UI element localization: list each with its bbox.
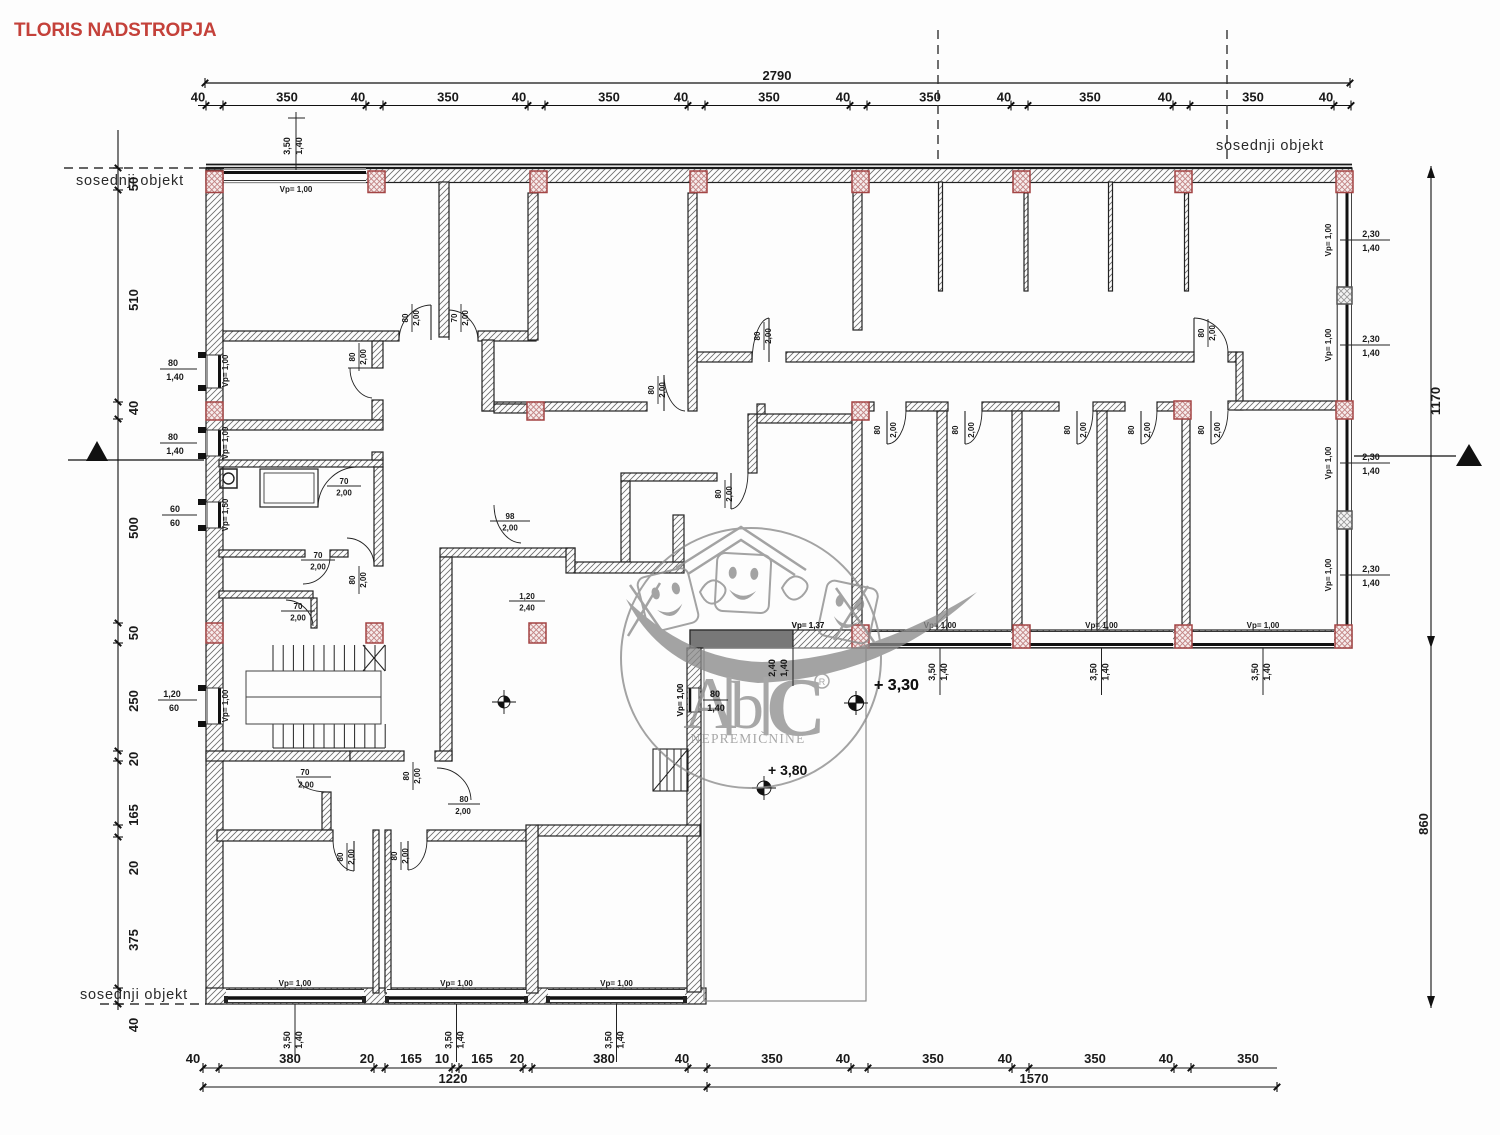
svg-text:1,40: 1,40 bbox=[616, 1031, 626, 1049]
wall VK bbox=[748, 414, 757, 473]
wall R2L bbox=[482, 402, 647, 411]
dashed boundary left (sosednji objekt) bbox=[64, 167, 206, 169]
svg-text:350: 350 bbox=[276, 90, 298, 105]
svg-text:80: 80 bbox=[348, 575, 357, 584]
svg-text:50: 50 bbox=[126, 626, 141, 640]
column bottom x206 bbox=[206, 623, 223, 643]
kitchen left bbox=[621, 481, 630, 562]
svg-text:20: 20 bbox=[126, 861, 141, 875]
svg-text:Vp= 1,00: Vp= 1,00 bbox=[221, 426, 230, 459]
svg-text:380: 380 bbox=[593, 1051, 615, 1066]
svg-text:40: 40 bbox=[512, 90, 526, 105]
svg-text:350: 350 bbox=[1084, 1051, 1106, 1066]
column top x368 bbox=[368, 171, 385, 193]
wall TD5 bbox=[1182, 419, 1190, 630]
stair rail rectangle bbox=[246, 671, 381, 724]
wall R2B bbox=[1228, 401, 1336, 410]
svg-text:40: 40 bbox=[836, 90, 850, 105]
column bottom x1013 bbox=[1013, 625, 1030, 648]
svg-text:250: 250 bbox=[126, 690, 141, 712]
door toilet x1211 bbox=[1210, 411, 1212, 444]
svg-text:70: 70 bbox=[340, 477, 349, 486]
svg-text:80: 80 bbox=[1197, 425, 1206, 434]
svg-text:80: 80 bbox=[401, 313, 410, 322]
svg-text:350: 350 bbox=[1237, 1051, 1259, 1066]
right dimension 860 bbox=[1430, 648, 1432, 1008]
svg-text:1,40: 1,40 bbox=[1362, 466, 1380, 476]
wall A3 bbox=[697, 352, 752, 362]
window bottom wing x226 bbox=[226, 989, 364, 1003]
wall S5 stub bbox=[322, 792, 331, 830]
column mid x1174 bbox=[1174, 401, 1191, 419]
wall WC6 bbox=[311, 598, 317, 628]
svg-text:350: 350 bbox=[1079, 90, 1101, 105]
window bottom wing x387 bbox=[387, 989, 526, 1003]
svg-text:80: 80 bbox=[710, 689, 720, 699]
wall LW1 bbox=[217, 830, 333, 841]
wall T1 bbox=[869, 402, 874, 411]
window right wing bottom x869 bbox=[869, 631, 1011, 647]
watermark logo bbox=[621, 527, 977, 788]
column mid x527 bbox=[527, 402, 544, 420]
svg-text:40: 40 bbox=[1319, 90, 1333, 105]
column top x852 bbox=[852, 171, 869, 193]
wall C2 bbox=[494, 404, 527, 413]
level mark +3,30 bbox=[844, 691, 868, 715]
svg-text:1,40: 1,40 bbox=[294, 1031, 304, 1049]
door D1 80/2,00 bbox=[430, 305, 432, 340]
door D11 kitchen bbox=[730, 473, 732, 509]
wall KB2 bbox=[575, 562, 684, 573]
svg-text:350: 350 bbox=[922, 1051, 944, 1066]
wall V530 bbox=[528, 193, 538, 340]
wall S2b bbox=[435, 751, 452, 761]
svg-text:2,00: 2,00 bbox=[412, 310, 421, 326]
wall C1 bbox=[482, 340, 494, 411]
divider DD1b bbox=[385, 830, 391, 993]
svg-text:98: 98 bbox=[506, 512, 515, 521]
dashed boundary verticals top bbox=[937, 30, 939, 160]
staircase main bbox=[273, 645, 385, 748]
column top x530 bbox=[530, 171, 547, 193]
wall WC2 bbox=[374, 467, 383, 566]
svg-text:40: 40 bbox=[836, 1051, 850, 1066]
wall bottom right wing bbox=[690, 630, 1352, 648]
svg-text:2,30: 2,30 bbox=[1362, 229, 1380, 239]
svg-text:80: 80 bbox=[168, 432, 178, 442]
left wall window w1 bbox=[206, 355, 223, 388]
bottom dimension line row 2 (1220 / 1570) bbox=[203, 1086, 1277, 1088]
svg-text:80: 80 bbox=[753, 331, 762, 340]
wall TD2 bbox=[937, 411, 947, 630]
wall TD4 bbox=[1097, 411, 1107, 630]
svg-text:70: 70 bbox=[294, 602, 303, 611]
wall VJ bbox=[1236, 352, 1243, 410]
dashed boundary bottom-left bbox=[100, 1003, 206, 1005]
svg-text:40: 40 bbox=[186, 1051, 200, 1066]
section marker right bbox=[1354, 455, 1456, 457]
bottom dimension line row 1 bbox=[202, 1067, 1277, 1069]
svg-text:80: 80 bbox=[1063, 425, 1072, 434]
wall LW2 bbox=[427, 830, 526, 841]
svg-text:40: 40 bbox=[126, 1018, 141, 1032]
svg-text:10: 10 bbox=[435, 1051, 449, 1066]
svg-text:Vp= 1,00: Vp= 1,00 bbox=[221, 354, 230, 387]
svg-text:50: 50 bbox=[126, 177, 141, 191]
wall WC5 bbox=[219, 591, 313, 598]
window right wing bottom x1030 bbox=[1030, 631, 1173, 647]
svg-text:2,00: 2,00 bbox=[401, 848, 410, 864]
left wall window w3 bbox=[206, 502, 223, 528]
svg-text:80: 80 bbox=[647, 385, 656, 394]
svg-text:sosednji objekt: sosednji objekt bbox=[80, 987, 188, 1003]
window bottom wing x548 bbox=[548, 989, 685, 1003]
wall A5 bbox=[1228, 352, 1236, 362]
wall bottom left wing bbox=[206, 988, 706, 1004]
window right wall y240 bbox=[1340, 239, 1390, 241]
svg-text:60: 60 bbox=[170, 504, 180, 514]
dark shaded wall segment bbox=[690, 630, 793, 648]
svg-text:40: 40 bbox=[674, 90, 688, 105]
svg-text:1,40: 1,40 bbox=[707, 703, 725, 713]
svg-text:Vp= 1,00: Vp= 1,00 bbox=[676, 683, 685, 716]
svg-text:Vp= 1,00: Vp= 1,00 bbox=[221, 689, 230, 722]
svg-text:+ 3,80: + 3,80 bbox=[768, 762, 808, 778]
svg-text:2,00: 2,00 bbox=[290, 614, 306, 623]
svg-text:1,40: 1,40 bbox=[1262, 663, 1272, 681]
right wall gray columns bbox=[1337, 287, 1352, 304]
svg-text:Vp= 1,00: Vp= 1,00 bbox=[1247, 621, 1280, 630]
svg-text:Vp= 1,00: Vp= 1,00 bbox=[1324, 446, 1333, 479]
left wall window w2 bbox=[206, 430, 223, 456]
fin 3 bbox=[1109, 182, 1113, 291]
svg-text:2,00: 2,00 bbox=[967, 422, 976, 438]
svg-text:80: 80 bbox=[390, 851, 399, 860]
svg-text:TLORIS NADSTROPJA: TLORIS NADSTROPJA bbox=[14, 20, 217, 41]
door WC2 70/2,00 bbox=[303, 557, 330, 584]
door stairwell 80/2,00 bbox=[437, 768, 471, 800]
svg-text:Vp= 1,37: Vp= 1,37 bbox=[792, 621, 825, 630]
svg-text:3,50: 3,50 bbox=[1250, 663, 1260, 681]
svg-text:380: 380 bbox=[279, 1051, 301, 1066]
left wall window w4 bbox=[206, 688, 223, 724]
svg-text:sosednji objekt: sosednji objekt bbox=[1216, 138, 1324, 154]
svg-text:1170: 1170 bbox=[1428, 387, 1443, 415]
wall H11 bbox=[223, 420, 383, 430]
svg-text:40: 40 bbox=[126, 401, 141, 415]
divider DD1a bbox=[373, 830, 379, 993]
svg-text:2,00: 2,00 bbox=[502, 524, 518, 533]
door D2 70/2,00 bbox=[448, 310, 450, 340]
svg-text:2,00: 2,00 bbox=[889, 422, 898, 438]
column top x690 bbox=[690, 171, 707, 193]
column top x1336 bbox=[1336, 171, 1353, 193]
wall LW3 bbox=[538, 825, 700, 836]
svg-text:40: 40 bbox=[1159, 1051, 1173, 1066]
section marker left bbox=[68, 459, 204, 461]
divider DD2 bbox=[526, 825, 538, 993]
level mark +3,80 bbox=[752, 776, 776, 800]
wall V853 bbox=[853, 192, 862, 330]
svg-text:80: 80 bbox=[402, 771, 411, 780]
window right wall y575 bbox=[1340, 574, 1390, 576]
svg-text:Vp= 1,00: Vp= 1,00 bbox=[279, 979, 312, 988]
svg-text:2,00: 2,00 bbox=[310, 563, 326, 572]
svg-text:165: 165 bbox=[471, 1051, 493, 1066]
column bottom x366 bbox=[366, 623, 383, 643]
svg-text:20: 20 bbox=[126, 752, 141, 766]
watermark swoosh bbox=[626, 592, 977, 683]
svg-text:70: 70 bbox=[450, 313, 459, 322]
door WC closet 70/2,00 bbox=[318, 467, 356, 507]
svg-text:Vp= 1,00: Vp= 1,00 bbox=[600, 979, 633, 988]
svg-text:40: 40 bbox=[1158, 90, 1172, 105]
top dimension line segments bbox=[198, 105, 1352, 107]
svg-text:2,00: 2,00 bbox=[359, 572, 368, 588]
svg-text:2,00: 2,00 bbox=[413, 768, 422, 784]
svg-text:Vp= 1,00: Vp= 1,00 bbox=[440, 979, 473, 988]
svg-text:2,00: 2,00 bbox=[455, 807, 471, 816]
svg-text:Vp= 1,50: Vp= 1,50 bbox=[221, 498, 230, 531]
wall top bbox=[206, 168, 1352, 183]
svg-text:70: 70 bbox=[301, 768, 310, 777]
svg-text:Vp= 1,00: Vp= 1,00 bbox=[1085, 621, 1118, 630]
column top x1013 bbox=[1013, 171, 1030, 193]
level mark small bbox=[492, 690, 516, 714]
svg-text:1,40: 1,40 bbox=[1362, 243, 1380, 253]
wall T4 bbox=[1093, 402, 1125, 411]
column top x206 bbox=[206, 171, 223, 193]
wall TD1 bbox=[852, 419, 862, 630]
wall A4 bbox=[786, 352, 1194, 362]
svg-text:350: 350 bbox=[1242, 90, 1264, 105]
svg-text:80: 80 bbox=[1197, 328, 1206, 337]
column bottom x529 bbox=[529, 623, 546, 643]
svg-text:3,50: 3,50 bbox=[444, 1031, 454, 1049]
svg-text:1,40: 1,40 bbox=[1362, 348, 1380, 358]
svg-text:R: R bbox=[819, 677, 826, 687]
small stair lower wing bbox=[653, 749, 688, 791]
svg-text:Vp= 1,00: Vp= 1,00 bbox=[1324, 328, 1333, 361]
door room2 80/2,00 bbox=[347, 538, 374, 564]
wall VK step bbox=[757, 404, 765, 414]
column top x1175 bbox=[1175, 171, 1192, 193]
svg-text:1,20: 1,20 bbox=[163, 689, 181, 699]
svg-text:1,40: 1,40 bbox=[294, 137, 304, 155]
svg-text:350: 350 bbox=[761, 1051, 783, 1066]
wall KV bbox=[673, 515, 684, 562]
svg-text:375: 375 bbox=[126, 929, 141, 951]
svg-text:2,00: 2,00 bbox=[1213, 422, 1222, 438]
door D3 80/2,00 corridor bbox=[768, 318, 770, 362]
svg-text:350: 350 bbox=[598, 90, 620, 105]
window annotation 3,50/1,40 top bbox=[295, 112, 297, 170]
svg-text:2,00: 2,00 bbox=[764, 328, 773, 344]
svg-text:Vp= 1,00: Vp= 1,00 bbox=[280, 185, 313, 194]
corridor step bbox=[566, 548, 575, 573]
window right wall y345 bbox=[1340, 344, 1390, 346]
svg-text:860: 860 bbox=[1416, 813, 1431, 835]
wall WC4 bbox=[330, 550, 348, 557]
wall TD3 bbox=[1012, 411, 1022, 630]
svg-text:1,40: 1,40 bbox=[1101, 663, 1111, 681]
svg-text:+ 3,30: + 3,30 bbox=[874, 677, 919, 694]
fin 2 bbox=[1024, 193, 1028, 291]
wall V440 bbox=[439, 182, 449, 337]
svg-text:80: 80 bbox=[714, 489, 723, 498]
door D12 98/2,00 bbox=[494, 505, 521, 543]
door toilet x965 bbox=[964, 411, 966, 444]
svg-text:40: 40 bbox=[675, 1051, 689, 1066]
wall T2 bbox=[906, 402, 948, 411]
outer right wall (glazed facade) bbox=[1336, 170, 1352, 648]
wall WC1 bbox=[219, 460, 383, 467]
svg-text:1,40: 1,40 bbox=[939, 663, 949, 681]
svg-text:20: 20 bbox=[510, 1051, 524, 1066]
door toilet x1141 bbox=[1140, 411, 1142, 444]
fin 1 bbox=[939, 182, 943, 291]
svg-text:40: 40 bbox=[191, 90, 205, 105]
svg-text:1,40: 1,40 bbox=[1362, 578, 1380, 588]
column bottom x852 bbox=[852, 625, 869, 648]
door room2 right wall bbox=[348, 367, 372, 369]
svg-text:1,40: 1,40 bbox=[166, 372, 184, 382]
door below stairs 70/2,00 bbox=[296, 776, 331, 778]
svg-text:80: 80 bbox=[873, 425, 882, 434]
svg-text:2,00: 2,00 bbox=[347, 849, 356, 865]
svg-text:70: 70 bbox=[314, 551, 323, 560]
wall V372a lower bbox=[372, 400, 383, 420]
column bottom x1335 bbox=[1335, 625, 1352, 648]
svg-text:20: 20 bbox=[360, 1051, 374, 1066]
svg-text:Vp= 1,00: Vp= 1,00 bbox=[1324, 223, 1333, 256]
svg-text:165: 165 bbox=[400, 1051, 422, 1066]
svg-text:2,00: 2,00 bbox=[1079, 422, 1088, 438]
svg-text:1,20: 1,20 bbox=[519, 592, 535, 601]
wall V372b bbox=[372, 452, 383, 460]
door WC3 70/2,00 bbox=[286, 600, 313, 626]
wall V440 lower bbox=[440, 557, 452, 761]
wall V690 bbox=[688, 193, 697, 411]
svg-text:350: 350 bbox=[758, 90, 780, 105]
svg-text:40: 40 bbox=[351, 90, 365, 105]
wall V372a upper bbox=[372, 341, 383, 368]
svg-text:165: 165 bbox=[126, 804, 141, 826]
svg-text:3,50: 3,50 bbox=[1089, 663, 1099, 681]
svg-text:2,40: 2,40 bbox=[767, 659, 777, 677]
level mark +3,30 redraw bbox=[844, 691, 868, 715]
window top bay Vp=1,00 bbox=[224, 168, 366, 183]
door toilet x1077 bbox=[1076, 411, 1078, 444]
svg-text:2,30: 2,30 bbox=[1362, 334, 1380, 344]
column bottom x1175 bbox=[1175, 625, 1192, 648]
svg-text:1,40: 1,40 bbox=[166, 446, 184, 456]
wall A1 bbox=[223, 331, 399, 341]
svg-text:2,00: 2,00 bbox=[359, 349, 368, 365]
svg-text:3,50: 3,50 bbox=[927, 663, 937, 681]
wall left bbox=[206, 170, 223, 1004]
svg-text:3,50: 3,50 bbox=[282, 1031, 292, 1049]
window right wall y463 bbox=[1340, 462, 1390, 464]
svg-text:80: 80 bbox=[460, 795, 469, 804]
left dimension line bbox=[117, 130, 119, 1010]
svg-text:2,00: 2,00 bbox=[725, 486, 734, 502]
doors lower wing rooms bbox=[353, 841, 355, 871]
svg-text:40: 40 bbox=[997, 90, 1011, 105]
svg-text:2,40: 2,40 bbox=[519, 604, 535, 613]
door D10 80/2,00 bbox=[663, 375, 665, 411]
window right wing bottom x1192 bbox=[1192, 631, 1334, 647]
terrace outline bbox=[704, 648, 866, 1001]
svg-text:1220: 1220 bbox=[439, 1071, 468, 1086]
svg-text:2,30: 2,30 bbox=[1362, 452, 1380, 462]
column mid x1336 bbox=[1336, 401, 1353, 419]
door D4 80/2,00 right bbox=[1193, 318, 1195, 352]
svg-text:1,40: 1,40 bbox=[779, 659, 789, 677]
right dimension 1170 bbox=[1430, 166, 1432, 648]
svg-text:Vp= 1,00: Vp= 1,00 bbox=[1324, 558, 1333, 591]
svg-text:3,50: 3,50 bbox=[604, 1031, 614, 1049]
lower wing right wall window bbox=[688, 688, 700, 712]
svg-text:1,40: 1,40 bbox=[456, 1031, 466, 1049]
svg-text:60: 60 bbox=[170, 518, 180, 528]
wall WC3 bbox=[219, 550, 305, 557]
svg-text:510: 510 bbox=[126, 289, 141, 311]
wall R2R bbox=[757, 414, 852, 423]
wall A2 bbox=[478, 331, 536, 341]
svg-text:80: 80 bbox=[168, 358, 178, 368]
svg-text:2,00: 2,00 bbox=[658, 382, 667, 398]
svg-text:2,00: 2,00 bbox=[1143, 422, 1152, 438]
wall T5 bbox=[1157, 402, 1174, 411]
top dimension line 2790 bbox=[205, 82, 1350, 84]
svg-text:80: 80 bbox=[951, 425, 960, 434]
kitchen top bbox=[621, 473, 717, 481]
svg-text:80: 80 bbox=[348, 352, 357, 361]
svg-text:3,50: 3,50 bbox=[282, 137, 292, 155]
wall lower wing right bbox=[687, 648, 701, 992]
column mid x206 bbox=[206, 402, 223, 420]
svg-text:350: 350 bbox=[437, 90, 459, 105]
svg-text:2790: 2790 bbox=[763, 68, 792, 83]
wall S1 bbox=[206, 751, 350, 761]
svg-text:40: 40 bbox=[998, 1051, 1012, 1066]
stair break diagonals bbox=[363, 645, 385, 671]
watermark masks bbox=[636, 567, 700, 634]
corridor bottom bbox=[440, 548, 575, 557]
svg-text:2,30: 2,30 bbox=[1362, 564, 1380, 574]
svg-text:NEPREMIČNINE: NEPREMIČNINE bbox=[691, 731, 806, 746]
svg-text:80: 80 bbox=[336, 852, 345, 861]
door toilet x887 bbox=[886, 411, 888, 444]
svg-text:80: 80 bbox=[1127, 425, 1136, 434]
WC closet rectangle bbox=[260, 469, 318, 507]
svg-text:2,00: 2,00 bbox=[336, 489, 352, 498]
svg-text:500: 500 bbox=[126, 517, 141, 539]
wall S2a bbox=[350, 751, 404, 761]
neighbour building edge line bbox=[206, 164, 1352, 166]
wall T3 bbox=[982, 402, 1059, 411]
column mid x852 bbox=[852, 402, 869, 420]
svg-text:1570: 1570 bbox=[1020, 1071, 1049, 1086]
WC shaft symbol bbox=[220, 469, 237, 488]
svg-text:60: 60 bbox=[169, 703, 179, 713]
fin 4 bbox=[1185, 193, 1189, 291]
svg-text:2,00: 2,00 bbox=[461, 310, 470, 326]
svg-text:2,00: 2,00 bbox=[1208, 325, 1217, 341]
